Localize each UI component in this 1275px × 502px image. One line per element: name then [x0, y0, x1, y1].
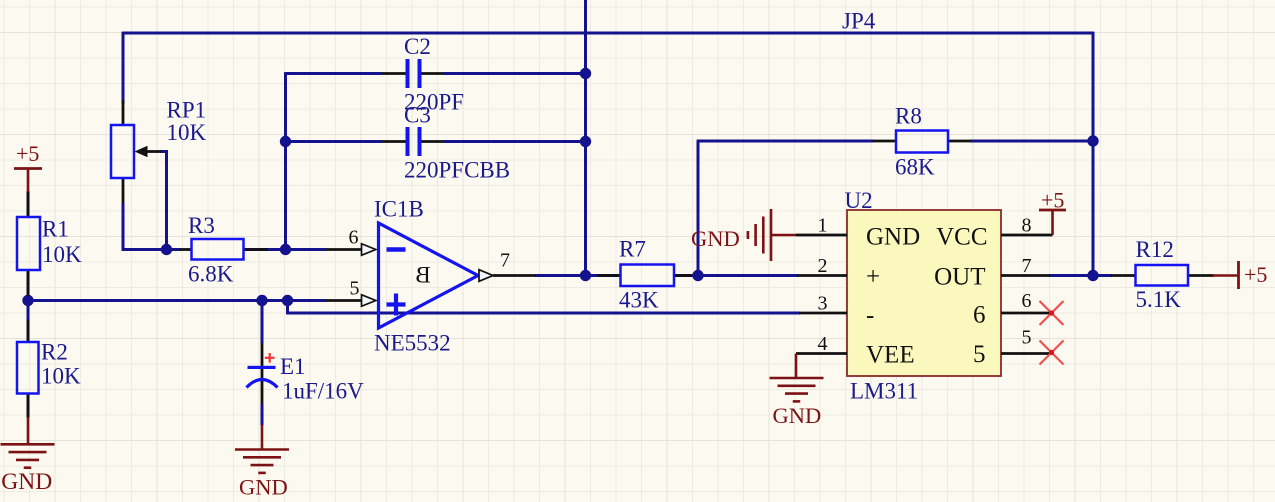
svg-text:LM311: LM311: [850, 379, 918, 404]
svg-text:8: 8: [1022, 215, 1032, 237]
U2 pin 6 no-connect: [973, 290, 1064, 329]
op-amp U1 IC1B NE5532: [374, 197, 478, 356]
svg-text:RP1: RP1: [167, 98, 207, 123]
resistor R7: [597, 237, 692, 313]
svg-text:R1: R1: [42, 217, 69, 242]
U2 pin 8 VCC: [936, 215, 1052, 251]
U2 pin 2 +: [798, 255, 881, 291]
svg-text:2: 2: [818, 255, 828, 277]
wire E1 bottom: [261, 404, 264, 426]
svg-text:10K: 10K: [42, 242, 82, 267]
wire R2 top: [27, 301, 30, 344]
capacitor C2 220PF: [381, 34, 464, 115]
node C3/top vertical junction: [580, 136, 591, 147]
power +5 (R12 right): [1212, 261, 1267, 289]
svg-text:C3: C3: [404, 103, 431, 128]
wire node to op-amp pin 5: [28, 299, 326, 302]
svg-text:+5: +5: [1041, 188, 1064, 213]
wire top vertical to output node: [584, 0, 587, 276]
svg-text:+5: +5: [16, 141, 39, 166]
resistor R12: [1111, 237, 1214, 312]
wire R8 right: [970, 140, 1094, 143]
U2 pin 7 OUT: [934, 255, 1050, 291]
potentiometer RP1: [111, 98, 207, 204]
wire C2 right: [444, 72, 586, 75]
svg-text:5: 5: [973, 341, 986, 368]
wire RP1 bottom to node: [123, 203, 181, 250]
svg-text:GND: GND: [691, 226, 740, 251]
node C2/top vertical junction: [580, 68, 591, 79]
wire C2 left: [286, 72, 382, 75]
wire JP4 left vertical: [122, 32, 125, 104]
node pin5/pin3 junction: [282, 295, 293, 306]
wire R2 bottom: [27, 393, 30, 419]
node E1 junction: [256, 295, 267, 306]
svg-text:GND: GND: [239, 475, 288, 500]
power +5 (U2 VCC): [1039, 188, 1066, 236]
wire R7 node vertical to R8: [697, 141, 700, 277]
svg-text:220PFCBB: 220PFCBB: [404, 158, 510, 183]
svg-text:10K: 10K: [41, 364, 81, 389]
svg-text:6: 6: [349, 227, 359, 249]
node feedback/C3 junction: [280, 136, 291, 147]
wire E1 top: [261, 301, 264, 344]
ground (U2 pin 1, rotated): [691, 209, 796, 261]
U2 pin 3 -: [799, 293, 874, 330]
svg-text:68K: 68K: [895, 155, 935, 180]
wire JP4 top horizontal: [123, 32, 1093, 35]
svg-text:JP4: JP4: [842, 9, 876, 34]
svg-text:R3: R3: [188, 213, 215, 238]
wire C3 left: [286, 140, 382, 143]
svg-text:R7: R7: [619, 237, 646, 262]
svg-text:R8: R8: [895, 104, 922, 129]
svg-text:1uF/16V: 1uF/16V: [282, 379, 364, 404]
svg-text:U2: U2: [845, 188, 873, 213]
node feedback/pin6 junction: [280, 244, 291, 255]
svg-text:5.1K: 5.1K: [1136, 287, 1182, 312]
wire R8 left: [697, 140, 874, 143]
node R1/R2 junction: [22, 295, 33, 306]
ground (R2 bottom): [1, 417, 55, 495]
svg-text:+5: +5: [1244, 262, 1267, 287]
resistor R1: [17, 192, 82, 296]
node RP1 wiper junction: [161, 244, 172, 255]
resistor R2: [17, 320, 81, 418]
svg-text:43K: 43K: [619, 288, 659, 313]
svg-text:OUT: OUT: [934, 264, 985, 291]
svg-text:GND: GND: [773, 403, 822, 428]
svg-text:6: 6: [973, 302, 986, 329]
U2 pin 4 VEE: [796, 333, 915, 369]
node R7/R8 junction: [692, 270, 703, 281]
svg-text:NE5532: NE5532: [374, 331, 451, 356]
svg-text:VCC: VCC: [936, 224, 987, 251]
ground (E1 bottom): [235, 425, 289, 500]
ground (U2 VEE): [770, 354, 824, 429]
op-amp pin 7 output: [479, 250, 536, 282]
svg-text:7: 7: [500, 250, 510, 272]
svg-text:4: 4: [818, 333, 828, 355]
node OUT/R12 junction: [1087, 270, 1098, 281]
wire RP1 wiper vertical: [160, 152, 167, 250]
svg-text:R12: R12: [1136, 237, 1174, 262]
wire R1 bottom: [27, 269, 30, 301]
svg-text:-: -: [866, 302, 874, 329]
U2 pin 5 no-connect: [973, 327, 1064, 369]
svg-text:5: 5: [350, 278, 360, 300]
op-amp U2 LM311 body: [845, 188, 1002, 404]
svg-text:10K: 10K: [167, 120, 207, 145]
resistor R3: [180, 213, 268, 287]
svg-text:6.8K: 6.8K: [188, 262, 234, 287]
power +5 (R1 top): [14, 141, 42, 192]
svg-text:3: 3: [818, 293, 828, 315]
wire C3 right: [444, 140, 586, 143]
capacitor C3 220PFCBB: [381, 103, 510, 183]
svg-text:5: 5: [1022, 327, 1032, 349]
resistor R8: [873, 104, 972, 180]
wire op-amp output to R7: [535, 274, 621, 277]
wire feedback vertical: [284, 72, 287, 249]
svg-text:C2: C2: [404, 34, 431, 59]
node R8/JP4 junction: [1087, 135, 1098, 146]
capacitor E1 1uF/16V electrolytic: [247, 343, 365, 404]
svg-text:1: 1: [818, 215, 828, 237]
wire JP4 right vertical: [1092, 32, 1095, 276]
wire R7 to LM311 pin 2: [673, 274, 799, 277]
svg-text:VEE: VEE: [866, 342, 915, 369]
wire R1 top: [27, 191, 30, 218]
svg-text:R2: R2: [41, 340, 68, 365]
svg-text:IC1B: IC1B: [374, 197, 424, 222]
svg-text:GND: GND: [1, 469, 52, 495]
node output junction: [580, 270, 591, 281]
op-amp pin 5 non-inverting input: [326, 278, 376, 307]
op-amp pin 6 inverting input: [326, 227, 376, 256]
wire to LM311 pin 3: [288, 301, 801, 314]
svg-text:E1: E1: [280, 354, 306, 379]
U2 pin 1 GND: [796, 215, 920, 251]
wire LM311 OUT to R12: [1049, 274, 1112, 277]
svg-text:6: 6: [1022, 290, 1032, 312]
svg-text:GND: GND: [866, 224, 920, 251]
svg-text:B: B: [415, 262, 430, 287]
svg-text:7: 7: [1022, 255, 1032, 277]
svg-text:+: +: [866, 264, 880, 291]
wire R3 to op-amp pin 6: [244, 248, 327, 251]
